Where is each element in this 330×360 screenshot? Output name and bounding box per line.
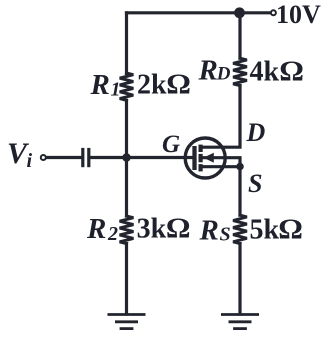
svg-text:R: R	[198, 55, 218, 87]
wire top rail	[127, 11, 272, 14]
wire left rail: R1 to R2 through gate node	[125, 100, 128, 216]
MOSFET body circle	[185, 138, 225, 178]
wire left rail: top corner to R1	[125, 13, 128, 74]
resistor R1	[120, 73, 134, 100]
wire input: Vi terminal to capacitor	[46, 156, 81, 159]
svg-text:Ω: Ω	[166, 70, 191, 100]
node source junction	[236, 163, 244, 171]
svg-text:4k: 4k	[250, 57, 280, 88]
svg-text:2: 2	[107, 223, 118, 245]
wire left rail: R2 to ground	[125, 244, 128, 314]
svg-text:G: G	[162, 131, 180, 158]
MOSFET channel segment middle	[199, 154, 203, 162]
wire input: capacitor to gate of MOSFET	[90, 156, 194, 159]
svg-text:Ω: Ω	[278, 215, 303, 245]
wire right rail: RS to ground	[238, 244, 241, 314]
node gate junction	[122, 153, 131, 162]
svg-text:i: i	[27, 150, 33, 172]
MOSFET gate bar	[192, 146, 196, 170]
MOSFET Q1	[185, 138, 225, 178]
svg-text:2k: 2k	[137, 70, 167, 101]
resistor R2	[120, 216, 134, 244]
MOSFET channel segment bottom	[199, 164, 203, 171]
svg-text:S: S	[220, 223, 231, 245]
wire source: source stub to junction, down to RS	[203, 167, 241, 216]
resistor RD	[233, 58, 247, 85]
svg-text:R: R	[90, 69, 110, 101]
wire body stub: body to source junction	[203, 158, 241, 167]
terminal 10V open dot	[271, 10, 276, 15]
svg-text:1: 1	[111, 79, 121, 101]
ground left	[108, 315, 146, 329]
svg-text:S: S	[248, 169, 262, 198]
svg-text:10V: 10V	[276, 0, 321, 29]
svg-text:R: R	[86, 213, 106, 245]
wire right rail: top node to RD	[238, 13, 241, 58]
node top junction	[234, 7, 245, 18]
svg-text:D: D	[216, 63, 231, 84]
resistor RS	[233, 215, 247, 243]
svg-text:Ω: Ω	[279, 57, 304, 87]
svg-text:3k: 3k	[137, 213, 167, 244]
svg-text:5k: 5k	[250, 215, 280, 246]
ground right	[221, 315, 259, 329]
wire drain: RD down to drain stub of MOSFET	[203, 86, 241, 148]
svg-text:D: D	[246, 118, 266, 147]
capacitor C1 plate right	[87, 150, 90, 166]
svg-text:Ω: Ω	[166, 214, 191, 244]
MOSFET channel segment top	[199, 145, 203, 152]
capacitor C1 plate left	[81, 150, 84, 166]
terminal Vi open dot	[41, 155, 46, 160]
svg-text:R: R	[199, 214, 219, 246]
MOSFET substrate arrow	[203, 153, 214, 163]
